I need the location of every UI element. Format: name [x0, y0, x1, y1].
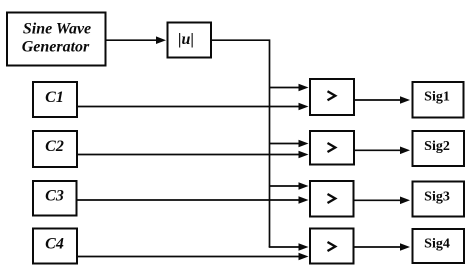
block C1	[33, 82, 77, 117]
svg-text:Sig3: Sig3	[424, 190, 450, 205]
wire: |u| output to vertical bus	[212, 40, 270, 247]
svg-text:Sig1: Sig1	[424, 90, 450, 105]
wire: comparator 1 output to Sig1	[355, 96, 410, 104]
svg-text:|u|: |u|	[178, 31, 194, 48]
block C3	[33, 181, 77, 216]
svg-text:Sig4: Sig4	[424, 237, 450, 252]
wire: Sine Wave Generator output to |u| input	[107, 36, 167, 44]
svg-text:C4: C4	[45, 236, 64, 253]
block Sig1	[413, 82, 464, 118]
wire: bus branch to comparator 1 top input	[270, 84, 309, 92]
wire: bus elbow to comparator 4 top input	[269, 243, 309, 251]
wire: C1 to comparator 1 bottom input	[78, 103, 309, 111]
block |u| absolute value	[168, 23, 212, 58]
svg-text:C3: C3	[45, 188, 64, 205]
svg-text:Sig2: Sig2	[424, 139, 450, 154]
wire: comparator 3 output to Sig3	[355, 197, 411, 205]
svg-text:C2: C2	[45, 138, 64, 155]
block Sine Wave Generator	[7, 13, 106, 66]
wire: comparator 4 output to Sig4	[355, 243, 411, 251]
wire: C2 to comparator 2 bottom input	[78, 151, 309, 159]
block comparator 1 (>)	[310, 79, 354, 115]
wire: bus branch to comparator 3 top input	[270, 182, 309, 190]
svg-text:Generator: Generator	[22, 39, 90, 56]
block Sig3	[413, 182, 465, 217]
block comparator 2 (>)	[310, 131, 354, 165]
block Sig4	[413, 229, 465, 263]
wire: C3 to comparator 3 bottom input	[78, 196, 309, 204]
svg-text:C1: C1	[45, 89, 64, 106]
block C4	[33, 229, 77, 264]
svg-text:Sine Wave: Sine Wave	[23, 21, 91, 38]
wire: comparator 2 output to Sig2	[355, 147, 410, 155]
block comparator 4 (>)	[310, 229, 354, 264]
block Sig2	[413, 131, 465, 166]
block C2	[33, 131, 77, 167]
wire: bus branch to comparator 2 top input	[270, 140, 309, 148]
wire: C4 to comparator 4 bottom input	[78, 253, 309, 261]
block comparator 3 (>)	[310, 181, 354, 217]
